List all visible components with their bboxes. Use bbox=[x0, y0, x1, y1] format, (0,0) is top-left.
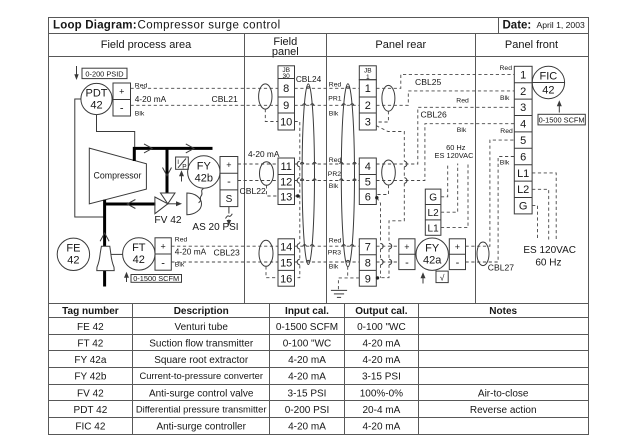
cable label CBL23 bbox=[214, 248, 240, 258]
svg-text:AS 20 PSI: AS 20 PSI bbox=[192, 222, 238, 233]
ground symbol bbox=[331, 290, 347, 297]
svg-text:+: + bbox=[404, 242, 409, 252]
value label 0-1500 SCFM (field) bbox=[131, 274, 182, 283]
svg-text:CBL25: CBL25 bbox=[415, 77, 441, 87]
svg-text:Square root extractor: Square root extractor bbox=[154, 355, 249, 366]
terminal block JB30 terminals 14 15 16 bbox=[278, 239, 295, 286]
svg-text:PR2: PR2 bbox=[328, 171, 341, 178]
FT 42 terminal box + / - bbox=[155, 238, 171, 270]
svg-text:Current-to-pressure converter: Current-to-pressure converter bbox=[139, 370, 262, 381]
pneumatic squiggle FY42b to actuator bbox=[199, 189, 204, 203]
svg-text:FV 42: FV 42 bbox=[154, 215, 182, 226]
wire CBL21 shield to terminal 10 bbox=[265, 109, 278, 121]
cable CBL26 pair oval bbox=[382, 160, 396, 185]
input arrow into I/P bbox=[179, 170, 184, 181]
svg-text:6: 6 bbox=[365, 192, 371, 204]
junction box JB1 header bbox=[359, 66, 376, 81]
svg-text:+: + bbox=[455, 242, 460, 252]
svg-text:Compressor: Compressor bbox=[94, 171, 142, 181]
svg-text:1: 1 bbox=[365, 83, 371, 95]
svg-text:2: 2 bbox=[365, 100, 371, 112]
wire JB1-8 to FY42a - bbox=[376, 261, 399, 263]
pipe: recycle return to suction bbox=[105, 203, 156, 206]
svg-text:FY 42b: FY 42b bbox=[74, 372, 106, 383]
svg-text:0-200 PSI: 0-200 PSI bbox=[285, 405, 329, 416]
wire CBL26 shield to JB1-6 bbox=[376, 185, 388, 195]
valve actuator diaphragm bbox=[187, 193, 202, 215]
svg-text:PDT: PDT bbox=[86, 88, 108, 100]
svg-text:42b: 42b bbox=[195, 173, 213, 185]
svg-text:60 Hz: 60 Hz bbox=[535, 258, 561, 269]
svg-text:PR3: PR3 bbox=[328, 250, 341, 257]
wire label Blk CBL26 bbox=[457, 127, 467, 134]
svg-text:Red: Red bbox=[329, 237, 342, 244]
svg-text:Field process area: Field process area bbox=[101, 39, 192, 51]
cable CBL23 pair oval bbox=[259, 240, 273, 266]
svg-text:+: + bbox=[160, 242, 165, 252]
svg-text:8: 8 bbox=[365, 258, 371, 270]
svg-text:FT: FT bbox=[132, 242, 146, 254]
svg-text:Red: Red bbox=[329, 81, 342, 88]
svg-text:Anti-surge control valve: Anti-surge control valve bbox=[149, 388, 254, 399]
junction at JB1-9 bbox=[376, 276, 379, 279]
svg-text:Blk: Blk bbox=[457, 127, 467, 134]
svg-text:0-100 "WC: 0-100 "WC bbox=[283, 338, 332, 349]
cable label CBL26 bbox=[421, 109, 447, 119]
shield drain bus terminal 10 to 13 to 16 bbox=[295, 122, 300, 278]
PDT 42 terminal box + / - bbox=[113, 83, 131, 116]
wire label Red PR3 bbox=[329, 237, 342, 244]
svg-text:6: 6 bbox=[520, 151, 526, 163]
pair label PR3 bbox=[328, 250, 341, 257]
svg-text:-: - bbox=[120, 103, 124, 115]
svg-text:ES 120VAC: ES 120VAC bbox=[435, 151, 475, 160]
flow arrow on discharge pipe 1 bbox=[144, 144, 152, 153]
front terminal strip 1-6 L1 L2 G bbox=[514, 66, 532, 214]
svg-text:2: 2 bbox=[520, 86, 526, 98]
svg-text:Red: Red bbox=[500, 65, 513, 72]
wire pair PR1 red: terminal 8 to JB1-1 bbox=[295, 87, 360, 89]
wire label Blk PR2 bbox=[329, 183, 339, 190]
svg-text:Tag number: Tag number bbox=[62, 306, 119, 317]
wire FY42a - out to front 5 bbox=[466, 157, 515, 263]
pair label PR1 bbox=[328, 96, 341, 103]
wire label Red PR1 bbox=[329, 81, 342, 88]
instrument bubble FE 42 bbox=[57, 238, 89, 270]
junction box JB30 header bbox=[278, 66, 295, 80]
svg-text:4-20 mA: 4-20 mA bbox=[288, 422, 326, 433]
svg-text:CBL23: CBL23 bbox=[214, 248, 240, 258]
wire PDT+ Red to terminal 8 bbox=[131, 87, 279, 89]
controller FIC 42 bbox=[532, 66, 564, 98]
svg-text:12: 12 bbox=[280, 177, 292, 189]
svg-text:Air-to-close: Air-to-close bbox=[478, 388, 529, 399]
svg-text:Blk: Blk bbox=[500, 95, 510, 102]
outer frame bbox=[49, 18, 589, 435]
power wire front L1 bbox=[532, 173, 556, 240]
svg-text:Red: Red bbox=[500, 128, 513, 135]
wire FT- Blk to terminal 15 bbox=[171, 261, 278, 263]
svg-text:FT 42: FT 42 bbox=[77, 338, 103, 349]
svg-text:-: - bbox=[161, 258, 165, 270]
power wire front G bbox=[532, 205, 537, 239]
svg-text:Blk: Blk bbox=[329, 263, 339, 270]
cable CBL22 pair oval bbox=[260, 162, 274, 186]
wire FY42a + out to front 6 bbox=[466, 140, 515, 246]
svg-text:Output cal.: Output cal. bbox=[355, 306, 407, 317]
svg-text:3-15 PSI: 3-15 PSI bbox=[288, 388, 327, 399]
svg-text:Anti-surge controller: Anti-surge controller bbox=[156, 422, 246, 433]
svg-text:FY 42a: FY 42a bbox=[74, 355, 106, 366]
flow arrow on discharge pipe 2 bbox=[186, 144, 194, 153]
svg-text:0-1500 SCFM: 0-1500 SCFM bbox=[133, 274, 179, 283]
value label 0-1500 SCFM (front) bbox=[538, 114, 585, 125]
wire label Blk (CBL23) bbox=[175, 261, 185, 268]
pipe: suction riser bbox=[103, 200, 106, 246]
cable CBL27 pair oval bbox=[477, 242, 489, 266]
shield chain JB1-3 down to JB1-9 bbox=[376, 126, 407, 278]
svg-text:4-20 mA: 4-20 mA bbox=[363, 422, 401, 433]
cable label CBL27 bbox=[488, 262, 514, 272]
svg-text:Red: Red bbox=[329, 157, 342, 164]
svg-text:5: 5 bbox=[365, 177, 371, 189]
svg-text:0-1500 SCFM: 0-1500 SCFM bbox=[276, 322, 338, 333]
flow arrow down on recycle drop bbox=[163, 168, 172, 176]
label 60 Hz ES 120VAC (rear) bbox=[435, 143, 475, 160]
svg-text:0-1500 SCFM: 0-1500 SCFM bbox=[539, 115, 585, 124]
junction: terminal 13 drain bbox=[295, 194, 300, 197]
multipair cable CBL24 bbox=[302, 84, 354, 267]
terminal block JB30 terminals 8 9 10 bbox=[278, 79, 295, 131]
terminal block JB1 terminals 7 8 9 bbox=[359, 239, 376, 286]
svg-text:+: + bbox=[119, 87, 124, 97]
svg-text:4-20 mA: 4-20 mA bbox=[288, 355, 326, 366]
converter FY 42b bbox=[188, 156, 220, 188]
wire label Red (front 1) bbox=[500, 65, 513, 72]
svg-text:April 1, 2003: April 1, 2003 bbox=[537, 20, 585, 30]
flow arrow left on recycle return bbox=[127, 200, 135, 209]
square root function box bbox=[436, 271, 448, 283]
wire label Red (CBL23) bbox=[175, 236, 188, 243]
svg-text:4-20 mA: 4-20 mA bbox=[248, 149, 280, 159]
svg-text:10: 10 bbox=[280, 116, 292, 128]
wire FY42b- to terminal 12 bbox=[238, 180, 278, 182]
svg-text:8: 8 bbox=[283, 83, 289, 95]
svg-text:Blk: Blk bbox=[135, 110, 145, 117]
svg-text:Red: Red bbox=[175, 236, 188, 243]
wire JB1-7 to FY42a + bbox=[376, 245, 399, 247]
svg-text:4-20 mA: 4-20 mA bbox=[288, 372, 326, 383]
pipe: recycle drop to valve bbox=[166, 148, 169, 192]
valve stem arrow bbox=[168, 201, 182, 206]
svg-text:FIC 42: FIC 42 bbox=[75, 422, 105, 433]
svg-text:1: 1 bbox=[520, 69, 526, 81]
PDT high-side impulse line to discharge pipe bbox=[97, 115, 135, 147]
svg-text:0-200 PSID: 0-200 PSID bbox=[85, 69, 123, 78]
svg-text:CBL27: CBL27 bbox=[488, 262, 514, 272]
svg-text:16: 16 bbox=[280, 273, 292, 285]
label ES 120VAC 60 Hz (front) bbox=[523, 245, 576, 269]
wire CBL26 blk: JB1-5 to front 4 bbox=[376, 124, 514, 181]
svg-text:S: S bbox=[226, 194, 233, 205]
FY 42b terminal box + / - / S bbox=[220, 157, 238, 207]
svg-text:-: - bbox=[405, 257, 409, 269]
svg-text:G: G bbox=[429, 193, 437, 204]
svg-text:3: 3 bbox=[520, 102, 526, 114]
svg-text:9: 9 bbox=[365, 273, 371, 285]
pair label PR2 bbox=[328, 171, 341, 178]
svg-text:5: 5 bbox=[520, 135, 526, 147]
I/P symbol of FY 42b bbox=[176, 157, 189, 170]
transmitter FT 42 bbox=[123, 238, 155, 270]
svg-text:Blk: Blk bbox=[329, 111, 339, 118]
cable label CBL21 bbox=[212, 94, 238, 104]
svg-text:FY: FY bbox=[197, 161, 212, 173]
wire pair PR2 blk: terminal 12 to JB1-5 bbox=[295, 179, 360, 181]
terminal block JB30 terminals 11 12 13 bbox=[278, 158, 295, 205]
svg-text:Loop Diagram:: Loop Diagram: bbox=[53, 20, 137, 32]
svg-text:42: 42 bbox=[133, 254, 145, 266]
FY 42a output terminal box bbox=[449, 239, 465, 270]
svg-text:4-20 mA: 4-20 mA bbox=[363, 355, 401, 366]
wire label Blk PR1 bbox=[329, 111, 339, 118]
svg-text:PDT 42: PDT 42 bbox=[74, 405, 108, 416]
PDT low-side impulse line to suction pipe bbox=[75, 99, 105, 217]
svg-text:Red: Red bbox=[456, 97, 469, 104]
svg-text:I: I bbox=[177, 159, 179, 166]
svg-text:4-20 mA: 4-20 mA bbox=[135, 94, 167, 104]
svg-text:Description: Description bbox=[174, 306, 229, 317]
wire CBL26 red: JB1-4 to front 3 bbox=[376, 107, 514, 164]
wire pair PR3 red: terminal 14 to JB1-7 bbox=[295, 245, 360, 247]
cable label CBL22 bbox=[240, 186, 266, 196]
svg-text:4: 4 bbox=[365, 161, 371, 173]
svg-text:Blk: Blk bbox=[329, 183, 339, 190]
svg-text:Differential pressure transmit: Differential pressure transmitter bbox=[136, 404, 267, 415]
svg-text:4-20 mA: 4-20 mA bbox=[363, 338, 401, 349]
svg-text:4: 4 bbox=[520, 119, 526, 131]
wire label Blk (front 2) bbox=[500, 95, 510, 102]
range arrow for FIC bbox=[557, 100, 562, 112]
svg-text:100%-0%: 100%-0% bbox=[360, 388, 403, 399]
svg-text:4-20 mA: 4-20 mA bbox=[175, 247, 207, 257]
terminal block JB1 terminals 4 5 6 bbox=[359, 158, 376, 205]
wire label 4-20 mA (CBL21) bbox=[135, 94, 167, 104]
svg-text:CBL22: CBL22 bbox=[240, 186, 266, 196]
svg-text:42: 42 bbox=[67, 255, 79, 267]
wire label Red CBL26 bbox=[456, 97, 469, 104]
svg-text:11: 11 bbox=[280, 161, 291, 173]
svg-text:-: - bbox=[227, 176, 231, 188]
svg-text:Notes: Notes bbox=[489, 306, 517, 317]
range arrow above PDT bbox=[74, 66, 78, 80]
svg-text:L1: L1 bbox=[428, 223, 440, 234]
svg-text:Panel front: Panel front bbox=[505, 39, 558, 51]
svg-text:CBL24: CBL24 bbox=[296, 74, 322, 84]
wire pair PR3 blk: terminal 15 to JB1-8 bbox=[295, 260, 360, 262]
svg-text:P: P bbox=[182, 163, 186, 170]
svg-text:CBL21: CBL21 bbox=[212, 94, 238, 104]
cable CBL21 pair oval bbox=[259, 84, 272, 109]
shield chain JB1-6 drop bbox=[375, 196, 383, 278]
svg-text:Venturi tube: Venturi tube bbox=[175, 322, 229, 333]
svg-text:Compressor surge control: Compressor surge control bbox=[138, 20, 281, 32]
wire CBL22 shield to terminal 13 bbox=[267, 185, 279, 196]
svg-text:3-15 PSI: 3-15 PSI bbox=[362, 372, 401, 383]
wire label Red (front 5) bbox=[500, 128, 513, 135]
cable CBL24 shield drain to ground bbox=[338, 267, 359, 290]
svg-text:L1: L1 bbox=[517, 168, 529, 180]
wire label Blk PR3 bbox=[329, 263, 339, 270]
svg-text:42: 42 bbox=[90, 100, 102, 112]
air supply line from S port bbox=[226, 207, 233, 226]
FY 42a input terminal box bbox=[399, 239, 415, 270]
svg-text:FY: FY bbox=[425, 243, 440, 255]
compressor body bbox=[89, 148, 146, 204]
svg-text:+: + bbox=[226, 160, 231, 170]
venturi tube FE 42 body bbox=[97, 246, 114, 270]
svg-text:20-4 mA: 20-4 mA bbox=[363, 405, 401, 416]
svg-text:Suction flow transmitter: Suction flow transmitter bbox=[149, 338, 254, 349]
svg-text:FE: FE bbox=[66, 243, 80, 255]
power wire L2 bbox=[441, 164, 458, 213]
label 4-20 mA near terminal 11 bbox=[248, 149, 280, 159]
cable label CBL25 bbox=[415, 77, 441, 87]
svg-text:panel: panel bbox=[272, 46, 299, 58]
svg-text:42a: 42a bbox=[423, 255, 442, 267]
svg-text:√: √ bbox=[440, 272, 445, 282]
wire pair PR1 blk: terminal 9 to JB1-2 bbox=[295, 104, 360, 106]
instrument index table bbox=[48, 303, 588, 434]
svg-text:Date:: Date: bbox=[503, 20, 532, 32]
svg-text:3: 3 bbox=[365, 116, 371, 128]
power wire front L2 bbox=[532, 189, 549, 239]
svg-text:14: 14 bbox=[280, 242, 292, 254]
svg-text:L2: L2 bbox=[517, 184, 529, 196]
label AS 20 PSI bbox=[192, 222, 238, 233]
power terminal block G L2 L1 bbox=[425, 189, 441, 235]
tap line venturi to FT 42 bbox=[111, 253, 123, 255]
wire FT+ Red to terminal 14 bbox=[171, 245, 278, 247]
pipe: below venturi bbox=[103, 271, 106, 287]
cable label CBL24 bbox=[296, 74, 322, 84]
svg-text:42: 42 bbox=[542, 85, 554, 97]
wire label 4-20 mA (CBL23) bbox=[175, 247, 207, 257]
terminal block JB1 terminals 1 2 3 bbox=[359, 80, 376, 130]
transmitter PDT 42 bbox=[81, 83, 112, 114]
wire FY42b+ to terminal 11 bbox=[238, 163, 278, 165]
input arrow FY 42a bbox=[421, 272, 426, 283]
column header row bbox=[48, 33, 588, 303]
wire label Blk (front 6) bbox=[500, 160, 510, 167]
svg-text:FIC: FIC bbox=[540, 71, 558, 83]
svg-text:FV 42: FV 42 bbox=[77, 388, 104, 399]
svg-text:CBL26: CBL26 bbox=[421, 109, 447, 119]
range arrow for FT bbox=[124, 272, 129, 282]
svg-text:-: - bbox=[456, 257, 460, 269]
title bar bbox=[48, 17, 588, 34]
control valve FV 42 bbox=[154, 193, 182, 226]
svg-text:0-100 "WC: 0-100 "WC bbox=[357, 322, 406, 333]
svg-text:Reverse action: Reverse action bbox=[470, 405, 537, 416]
wire CBL25 red: JB1-1 to front 1 bbox=[376, 74, 514, 88]
cable CBL25 pair oval bbox=[382, 85, 395, 111]
svg-text:G: G bbox=[519, 201, 528, 213]
extractor FY 42a bbox=[416, 238, 448, 270]
wire CBL25 shield to JB1-3 bbox=[376, 111, 388, 122]
svg-text:9: 9 bbox=[283, 100, 289, 112]
wire pair PR2 red: terminal 11 to JB1-4 bbox=[295, 162, 360, 164]
svg-text:13: 13 bbox=[280, 192, 292, 204]
pipe: compressor discharge bbox=[134, 148, 212, 161]
wire CBL25 blk: JB1-2 to front 2 bbox=[376, 91, 514, 105]
power wire G bbox=[441, 164, 448, 197]
svg-text:PR1: PR1 bbox=[328, 96, 341, 103]
svg-text:7: 7 bbox=[365, 242, 371, 254]
power wire L1 bbox=[441, 164, 468, 228]
wire label Red (CBL21) bbox=[135, 82, 148, 89]
svg-text:Panel rear: Panel rear bbox=[375, 39, 426, 51]
flow arrow up on suction riser bbox=[100, 233, 109, 241]
svg-text:Blk: Blk bbox=[500, 160, 510, 167]
svg-text:15: 15 bbox=[280, 258, 292, 270]
svg-text:L2: L2 bbox=[428, 208, 440, 219]
wire label Blk (CBL21) bbox=[135, 110, 145, 117]
wire PDT- Blk to terminal 9 bbox=[131, 104, 279, 106]
svg-text:Input cal.: Input cal. bbox=[285, 306, 329, 317]
value label 0-200 PSID bbox=[82, 68, 127, 78]
wire CBL23 shield to terminal 16 bbox=[266, 266, 278, 277]
svg-text:FE 42: FE 42 bbox=[77, 322, 104, 333]
svg-text:ES 120VAC: ES 120VAC bbox=[523, 245, 576, 256]
wire label Red PR2 bbox=[329, 157, 342, 164]
